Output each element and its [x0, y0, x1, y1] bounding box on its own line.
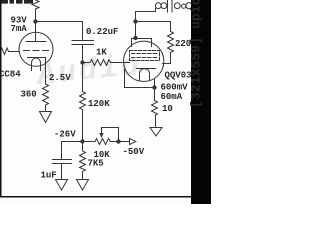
label 10: [162, 104, 173, 114]
label 600mV: [161, 83, 189, 93]
sidebar black strip: [191, 0, 211, 204]
resistor 7K5: [80, 142, 86, 180]
triode ECC84 envelope: [19, 32, 53, 66]
frame left edge: [0, 0, 2, 198]
junction pot right: [117, 140, 120, 143]
wire cathode right lead: [154, 79, 156, 101]
tetrode anode: [132, 39, 152, 47]
pot wiper arrow: [99, 133, 103, 138]
wire anode riser (right tube): [136, 12, 156, 39]
ground (360): [40, 112, 52, 123]
label 220: [175, 39, 191, 49]
svg-text:-50V: -50V: [123, 147, 145, 157]
resistor 120K: [80, 63, 86, 142]
svg-text:360: 360: [21, 90, 37, 100]
label 7K5: [88, 158, 104, 168]
junction anode left: [34, 20, 37, 23]
tetrode grid box: [130, 51, 160, 61]
junction anode top: [134, 36, 137, 39]
label -26V: [54, 129, 76, 139]
frame bottom edge: [0, 196, 192, 198]
transformer T1: [155, 0, 192, 12]
label 120K: [88, 99, 110, 109]
svg-text:-26V: -26V: [54, 129, 76, 139]
label 10K: [94, 150, 111, 160]
cathode resistor 360: [43, 58, 49, 112]
svg-text:2.5V: 2.5V: [49, 73, 71, 83]
wire cathode left return: [125, 70, 155, 88]
tetrode grid dashes: [132, 54, 159, 58]
label 1K5W cropped: [1, 0, 34, 4]
label CC84: [0, 69, 21, 79]
ground (7K5): [77, 180, 89, 191]
tetrode heater: [140, 69, 150, 80]
svg-text:[321x559] upic.me: [321x559] upic.me: [189, 0, 204, 108]
ground (10): [150, 128, 162, 137]
triode cathode: [28, 57, 46, 59]
svg-text:60mA: 60mA: [161, 92, 183, 102]
triode grid wire: [0, 48, 20, 55]
svg-text:1uF: 1uF: [41, 171, 57, 181]
capacitor 0.22uF: [72, 41, 94, 63]
triode grid dashes: [24, 50, 49, 52]
label 7mA: [11, 24, 28, 34]
label 60mA: [161, 92, 183, 102]
junction anode/220: [134, 20, 137, 23]
label 1uF: [41, 171, 57, 181]
svg-text:10: 10: [162, 104, 173, 114]
label -50V: [123, 147, 145, 157]
junction 120K/-26V: [81, 140, 84, 143]
wire -26V rail: [62, 141, 96, 143]
svg-text:1K: 1K: [96, 47, 107, 57]
svg-text:0.22uF: 0.22uF: [86, 27, 118, 37]
label 360: [21, 90, 37, 100]
resistor 1K: [83, 60, 130, 66]
svg-text:CC84: CC84: [0, 69, 21, 79]
resistor plate supply (cropped top): [32, 0, 39, 22]
label 2.5V: [49, 73, 71, 83]
label 1K: [96, 47, 107, 57]
label 93V: [11, 16, 28, 26]
wire anode node to cap: [36, 22, 83, 41]
resistor 10: [152, 101, 158, 128]
junction cathode: [153, 86, 156, 89]
watermark: [34, 49, 144, 94]
svg-text:7mA: 7mA: [11, 24, 28, 34]
tetrode QQV03 envelope: [124, 41, 164, 81]
wire to -50V arrow: [119, 138, 136, 144]
node A junction: [81, 61, 84, 64]
capacitor 1uF: [53, 142, 72, 180]
label QQV03: [165, 71, 203, 81]
label 0.22uF: [86, 27, 118, 37]
resistor 220: [163, 32, 174, 64]
triode anode: [26, 22, 46, 42]
triode heater: [32, 58, 41, 71]
potentiometer 10K: [95, 128, 119, 145]
tetrode cathode: [137, 68, 156, 70]
svg-text:120K: 120K: [88, 99, 110, 109]
ground (1uF): [56, 180, 68, 191]
svg-text:7K5: 7K5: [88, 158, 104, 168]
sidebar caption: [189, 0, 204, 108]
wire screen branch: [136, 22, 171, 32]
